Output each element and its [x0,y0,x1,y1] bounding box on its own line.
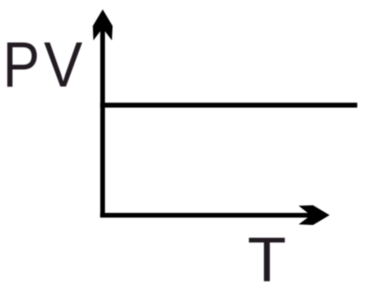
svg-text:V: V [44,29,83,100]
x-axis arrowhead [299,205,330,225]
constant PV line [100,103,357,108]
svg-text:P: P [3,29,40,101]
svg-text:T: T [248,225,287,287]
x-axis (T axis) [100,213,311,218]
y-axis arrowhead [93,9,113,40]
y-axis (PV axis) [100,22,105,218]
